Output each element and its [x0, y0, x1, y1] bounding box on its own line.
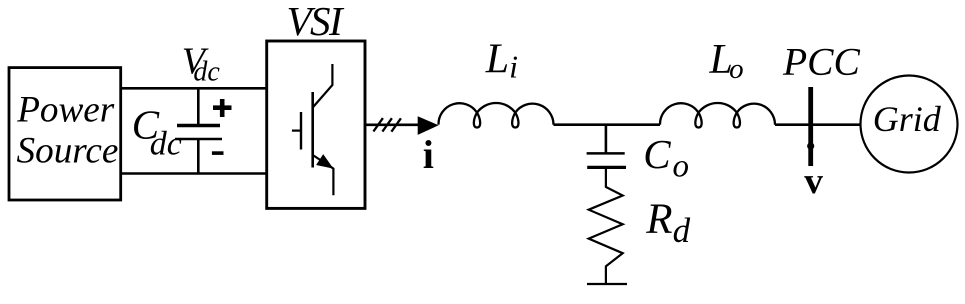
resistor Rd zigzag: [589, 167, 623, 283]
grid circle G1: [861, 76, 958, 173]
transistor Q1 IGBT gate plate: [300, 112, 302, 150]
capacitor Co: [587, 125, 626, 168]
PCC arrow dot: [807, 142, 814, 149]
svg-text:Source: Source: [17, 131, 119, 172]
power source box: [9, 68, 121, 200]
IGBT emitter arrowhead: [316, 154, 333, 169]
three-phase slash marks: [373, 118, 401, 132]
wire VSI output: [365, 124, 419, 127]
wire Li to Lo with junction: [554, 123, 661, 126]
plus sign: [213, 99, 232, 117]
PCC bus bar: [808, 87, 813, 166]
inductor Li coil: [438, 103, 553, 128]
svg-text:Power: Power: [16, 90, 115, 131]
transistor Q1 IGBT collector lead: [313, 64, 333, 108]
svg-text:i: i: [423, 132, 434, 177]
svg-text:PCC: PCC: [782, 39, 860, 83]
current arrow i: [418, 116, 439, 135]
capacitor Cdc: [175, 88, 222, 173]
open terminal bar: [587, 283, 627, 285]
wire Lo to grid: [775, 123, 861, 126]
svg-text:Grid: Grid: [873, 99, 942, 139]
svg-text:VSI: VSI: [287, 0, 346, 44]
wire dc bus top: [121, 87, 268, 90]
transistor Q1 IGBT gate lead: [292, 130, 301, 132]
minus sign: [212, 151, 224, 155]
transistor Q1 IGBT emitter lead: [313, 155, 334, 195]
wire dc bus bottom: [121, 172, 268, 175]
svg-text:v: v: [804, 161, 823, 202]
transistor Q1 IGBT body bar: [311, 92, 314, 168]
inductor Lo coil: [660, 103, 775, 128]
inverter box U1 VSI: [267, 41, 365, 208]
